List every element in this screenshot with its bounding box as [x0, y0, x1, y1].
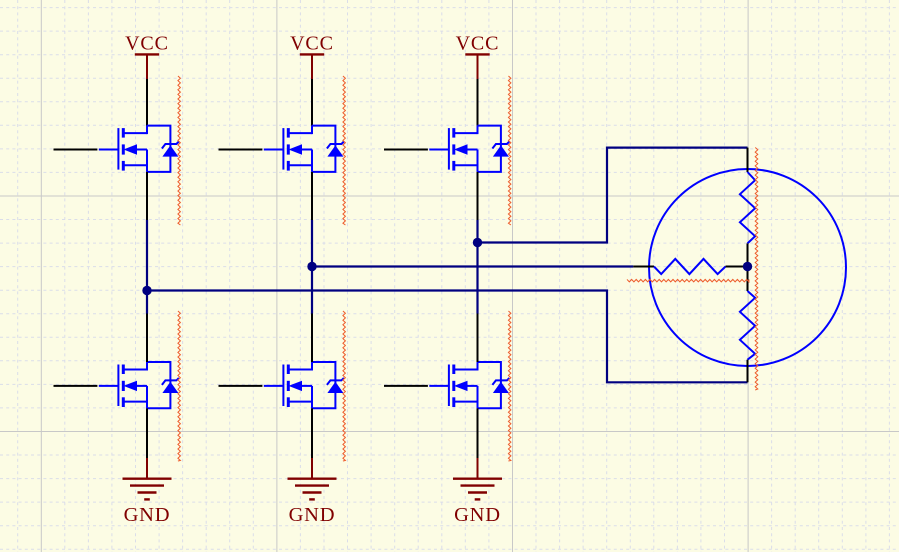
- wire gate stub of Q5 (black): [384, 149, 428, 151]
- power port VCC3 VCC: [456, 33, 500, 79]
- svg-text:VCC: VCC: [456, 33, 500, 55]
- svg-text:GND: GND: [289, 504, 336, 526]
- wire gate stub of Q6 (black): [384, 385, 428, 387]
- wire Q1 source pin (black): [146, 172, 148, 220]
- motor M1 body circle: [649, 169, 846, 366]
- wire Q6 source pin (black): [477, 408, 479, 458]
- wire gate stub of Q3 (black): [219, 149, 263, 151]
- node phase B junction: [307, 262, 316, 271]
- error marker squiggle beside Q6: [508, 311, 511, 461]
- wire phase A: junction column1 to motor bottom (navy): [147, 291, 748, 383]
- wire gate stub of Q1 (black): [54, 149, 98, 151]
- power port GND3 GND: [453, 458, 502, 526]
- wire R2 right lead (black): [726, 266, 748, 268]
- wire Q4 drain pin (black): [311, 314, 313, 363]
- power port VCC1 VCC: [125, 33, 169, 79]
- transistor Q2 (N-MOSFET with body diode): [99, 362, 179, 408]
- node phase C junction: [473, 238, 482, 247]
- error marker squiggle beside Q5: [508, 76, 511, 225]
- error marker squiggle under motor left winding: [627, 279, 749, 282]
- resistor R1 motor top winding: [740, 172, 755, 243]
- svg-text:GND: GND: [124, 504, 171, 526]
- wire phase junction to Q2 drain (navy): [146, 291, 148, 314]
- wire Q2 source pin (black): [146, 408, 148, 458]
- svg-text:VCC: VCC: [290, 33, 334, 55]
- svg-text:GND: GND: [454, 504, 501, 526]
- transistor Q1 (N-MOSFET with body diode): [99, 126, 179, 172]
- svg-text:VCC: VCC: [125, 33, 169, 55]
- power port GND2 GND: [288, 458, 337, 526]
- resistor R2 motor left winding: [654, 259, 726, 274]
- power port VCC2 symbol wire stem (black): [311, 79, 313, 126]
- wire Q6 drain pin (black): [477, 314, 479, 363]
- error marker squiggle on motor vertical windings: [755, 148, 758, 391]
- wire Q5 source pin (black): [477, 172, 479, 220]
- transistor Q4 (N-MOSFET with body diode): [264, 362, 344, 408]
- wire motor top winding pin (black): [747, 148, 749, 172]
- wire phase junction to Q6 drain (navy): [476, 243, 478, 314]
- resistor R3 motor bottom winding: [740, 291, 755, 360]
- wire Q3 source pin (black): [311, 172, 313, 220]
- wire gate stub of Q4 (black): [219, 385, 263, 387]
- wire Q2 drain pin (black): [146, 314, 148, 363]
- wire Q1 source to phase junction (navy): [146, 220, 148, 291]
- error marker squiggle beside Q2: [178, 311, 181, 461]
- wire gate stub of Q2 (black): [54, 385, 98, 387]
- wire motor bottom winding pin (black): [747, 360, 749, 383]
- node phase A junction: [142, 286, 151, 295]
- error marker squiggle beside Q3: [343, 76, 346, 225]
- power port VCC3 symbol wire stem (black): [477, 79, 479, 126]
- power port GND1 GND: [123, 458, 172, 526]
- wire Q4 source pin (black): [311, 408, 313, 458]
- wire phase C: junction column3 to motor top (navy): [478, 148, 748, 243]
- transistor Q3 (N-MOSFET with body diode): [264, 126, 344, 172]
- wire Q3 source to phase junction (navy): [311, 220, 313, 267]
- power port VCC2 VCC: [290, 33, 334, 79]
- node motor star point junction: [743, 262, 752, 271]
- wire phase junction to Q4 drain (navy): [311, 267, 313, 314]
- wire R1 lower lead (black): [747, 243, 749, 266]
- wire R3 upper lead (black): [747, 267, 749, 292]
- transistor Q5 (N-MOSFET with body diode): [429, 126, 509, 172]
- wire Q5 source to phase junction (navy): [476, 220, 478, 243]
- power port VCC1 symbol wire stem (black): [146, 79, 148, 126]
- error marker squiggle beside Q4: [343, 311, 346, 461]
- error marker squiggle beside Q1: [178, 76, 181, 225]
- transistor Q6 (N-MOSFET with body diode): [429, 362, 509, 408]
- wire motor left winding pin (black): [633, 266, 654, 268]
- wire phase B: junction column2 to motor left (navy): [312, 265, 633, 267]
